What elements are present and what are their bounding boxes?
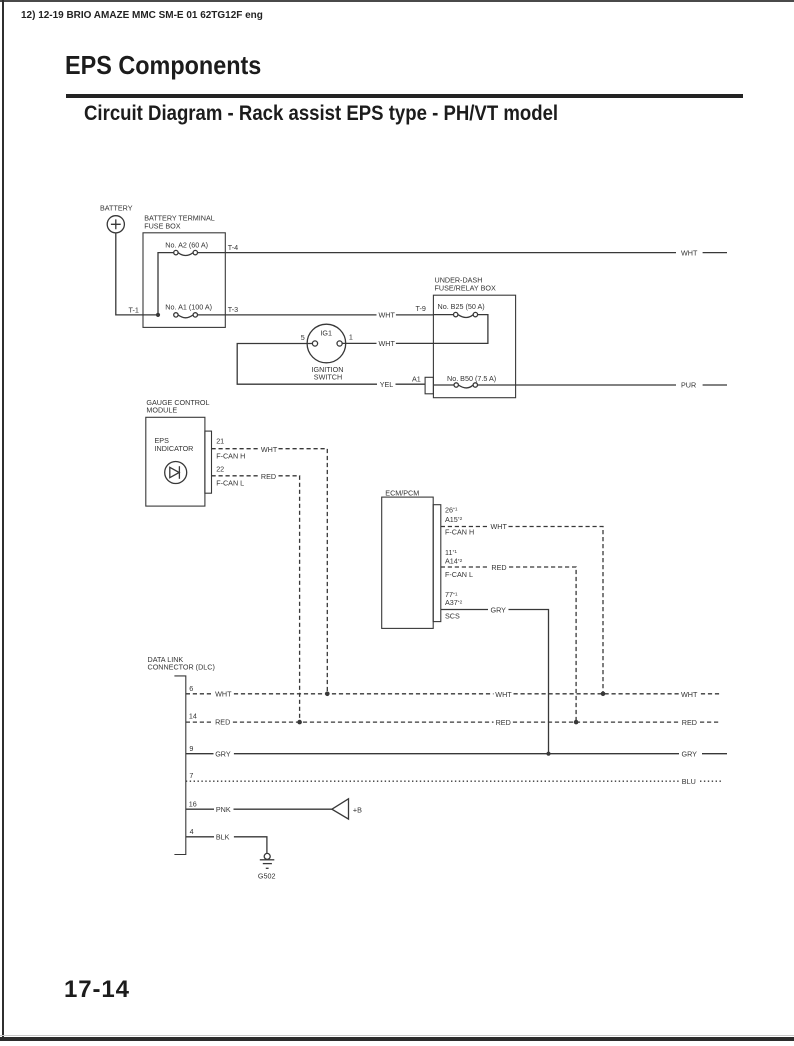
wire RED row end [700,721,721,723]
svg-text:1: 1 [349,333,353,342]
wire DLC pin 4 solid [186,836,214,838]
+B terminal triangle [332,799,349,819]
svg-text:WHT: WHT [681,690,698,699]
svg-text:GRY: GRY [215,749,231,758]
svg-text:WHT: WHT [495,690,512,699]
svg-text:RED: RED [261,472,276,481]
wire end T-4 row [703,252,727,254]
under-dash fuse/relay box label [435,276,496,293]
svg-text:F-CAN H: F-CAN H [216,452,245,461]
svg-text:21: 21 [216,437,224,446]
wire pin 22 F-CAN L dashed [212,475,259,477]
fuse No. B25 (50 A) [433,302,484,317]
wire WHT row dashed mid [234,693,494,695]
svg-text:WHT: WHT [215,689,232,698]
svg-text:BATTERY: BATTERY [100,203,133,212]
wire T-4 row [198,252,677,254]
junction dot RED/ECM [574,720,579,725]
header file label [21,9,263,21]
svg-text:A1: A1 [412,375,421,384]
wire RED row dashed right [513,721,679,723]
wire YEL to A1 connector [396,383,426,385]
ignition switch label [312,365,344,382]
svg-text:RED: RED [682,718,697,727]
fuse No. B50 (7.5 A) [433,374,496,388]
svg-text:14: 14 [189,711,197,720]
title rule [66,94,743,98]
wire B25 down and out to ignition switch [396,315,488,344]
wire ECM F-CAN L dashed [441,566,489,568]
svg-text:11*1: 11*1 [445,548,457,557]
gauge module connector strip [205,431,212,493]
svg-text:RED: RED [496,718,511,727]
svg-text:GRY: GRY [682,750,698,759]
scan left border [2,0,4,1038]
svg-text:ECM/PCM: ECM/PCM [385,488,419,497]
pin 26/A15 labels [445,505,463,524]
ECM/PCM box [382,497,434,628]
svg-text:WHT: WHT [491,522,508,531]
svg-text:22: 22 [216,465,224,474]
svg-text:INDICATOR: INDICATOR [155,444,194,453]
svg-text:4: 4 [190,827,194,836]
svg-text:CONNECTOR (DLC): CONNECTOR (DLC) [148,662,215,671]
svg-text:T-1: T-1 [129,306,139,315]
wire inside fuse box [158,253,174,315]
wire pin 21 F-CAN H dashed [212,448,259,450]
svg-text:PNK: PNK [216,805,231,814]
svg-text:F-CAN L: F-CAN L [216,479,244,488]
wire WHT row end [701,693,721,695]
svg-text:WHT: WHT [379,339,396,348]
wire GRY solid down to DLC row [509,610,549,754]
svg-text:IG1: IG1 [320,328,332,337]
EPS indicator label [155,436,194,453]
junction dot WHT/gauge [325,692,330,697]
svg-text:No. B50 (7.5 A): No. B50 (7.5 A) [447,374,496,383]
wire BLK to ground [234,837,267,854]
fuse No. A1 (100 A) [165,303,212,318]
svg-text:A37*2: A37*2 [445,598,463,607]
wire WHT to under-dash box [396,314,434,316]
wire GRY row solid [234,753,679,755]
gauge control module box [146,417,205,506]
svg-text:PUR: PUR [681,381,696,390]
scan bottom border [0,1035,794,1036]
connector A1 [425,377,433,394]
wire WHT dashed to DLC column [279,449,328,694]
DLC bracket [174,676,185,855]
wire RED dashed to DLC column [279,476,300,722]
pin 77/A37 labels [445,590,463,607]
battery terminal fuse box label [144,214,215,231]
wire battery to T-1 junction [116,233,156,315]
svg-text:SCS: SCS [445,611,460,620]
svg-text:YEL: YEL [380,380,394,389]
wire B50 to PUR [478,384,677,386]
page number [64,976,130,1004]
svg-text:FUSE BOX: FUSE BOX [144,221,181,230]
junction dot WHT/ECM [601,692,606,697]
section title [84,102,558,126]
wire DLC pin 14 dashed [186,721,214,723]
svg-text:16: 16 [189,799,197,808]
ground G502 [258,853,276,880]
svg-text:FUSE/RELAY BOX: FUSE/RELAY BOX [435,283,496,292]
wire RED row dashed mid [233,721,494,723]
battery terminal fuse box [143,233,225,328]
wire BLU row end [700,780,721,782]
svg-text:7: 7 [189,771,193,780]
wire end PUR row [703,384,727,386]
page title [65,50,261,81]
svg-text:BLK: BLK [216,833,230,842]
battery symbol [107,216,124,233]
svg-text:5: 5 [301,333,305,342]
svg-text:F-CAN H: F-CAN H [445,528,474,537]
svg-text:No. A2 (60 A): No. A2 (60 A) [165,241,208,250]
svg-text:26*1: 26*1 [445,505,458,514]
EPS indicator LED [165,462,187,484]
svg-text:RED: RED [491,563,506,572]
wire GRY row end [702,753,727,755]
svg-text:MODULE: MODULE [146,406,177,415]
svg-text:T-9: T-9 [416,304,426,313]
svg-text:WHT: WHT [379,310,396,319]
svg-text:6: 6 [189,684,193,693]
wire DLC pin 9 solid [186,753,214,755]
svg-text:GRY: GRY [491,605,507,614]
svg-text:SWITCH: SWITCH [314,373,342,382]
wire WHT to IG1 pin 1 [342,342,376,344]
junction dot T-1 [156,313,160,317]
svg-text:T-4: T-4 [228,243,238,252]
wire T-3 row to WHT [198,314,377,316]
svg-text:BLU: BLU [682,777,696,786]
fuse No. A2 (60 A) [165,241,208,256]
svg-text:WHT: WHT [261,445,278,454]
svg-text:A14*2: A14*2 [445,557,463,566]
wire IG1 pin 5 to YEL [237,344,377,385]
ECM/PCM connector strip [433,505,441,622]
wire DLC pin 6 dashed [186,693,214,695]
data link connector label [148,655,215,672]
svg-text:F-CAN L: F-CAN L [445,570,473,579]
svg-text:No. A1 (100 A): No. A1 (100 A) [165,303,212,312]
ignition switch IG1 [307,324,346,363]
wire DLC pin 16 solid [186,808,214,810]
svg-text:9: 9 [189,744,193,753]
svg-text:RED: RED [215,718,230,727]
svg-text:G502: G502 [258,871,276,880]
svg-text:A15*2: A15*2 [445,515,463,524]
gauge control module label [146,398,209,415]
wire DLC pin 7 dotted [186,780,679,782]
wire ECM SCS solid [441,609,488,611]
wire RED dashed down to DLC row [509,567,576,722]
under-dash fuse/relay box [433,295,515,398]
scan top border [0,0,794,2]
svg-text:No. B25 (50 A): No. B25 (50 A) [438,302,485,311]
junction dot GRY/ECM [546,752,550,756]
junction dot RED/gauge [297,720,302,725]
svg-text:WHT: WHT [681,248,698,257]
wire WHT row dashed right [514,693,680,695]
svg-text:+B: +B [353,805,362,814]
wire WHT dashed down to DLC row [509,527,604,694]
wire ECM F-CAN H dashed [441,526,488,528]
wire PNK to +B [234,808,332,810]
pin 11/A14 labels [445,548,463,566]
svg-text:T-3: T-3 [228,305,238,314]
